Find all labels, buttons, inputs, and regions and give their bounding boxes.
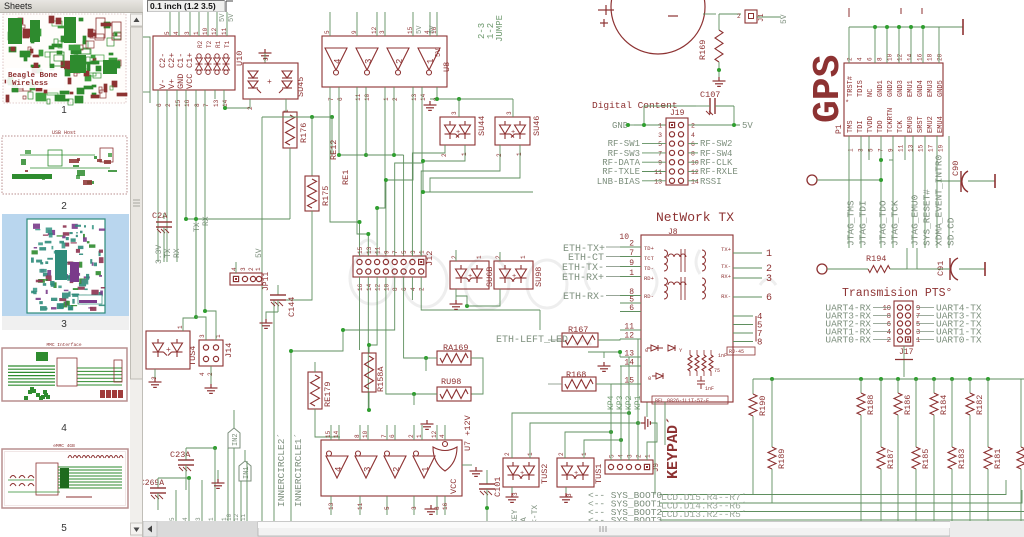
svg-text:1: 1 [476, 255, 483, 259]
wire [486, 489, 488, 521]
svg-text:1: 1 [461, 152, 468, 156]
svg-text:2: 2 [496, 153, 503, 157]
svg-text:Transmision PTS°: Transmision PTS° [842, 287, 952, 300]
svg-text:C101: C101 [493, 477, 503, 497]
svg-text:TCT: TCT [644, 255, 655, 262]
svg-text:T2: T2 [206, 40, 213, 48]
resistor R169 [715, 30, 723, 62]
svg-text:3: 3 [411, 506, 418, 510]
svg-text:16: 16 [917, 53, 924, 61]
capacitor C144 [277, 285, 279, 295]
svg-text:RE12: RE12 [329, 140, 339, 160]
svg-text:2: 2 [247, 106, 254, 110]
svg-text:14: 14 [420, 93, 427, 101]
svg-text:10: 10 [364, 93, 371, 101]
wire [358, 220, 362, 224]
svg-text:3: 3 [512, 492, 519, 496]
svg-text:7: 7 [629, 249, 634, 258]
svg-text:USB Host: USB Host [52, 130, 76, 136]
wire [366, 232, 370, 236]
svg-text:C1+: C1+ [185, 53, 195, 68]
svg-text:6: 6 [766, 293, 772, 304]
open pin [817, 264, 827, 274]
svg-text:C2A: C2A [152, 211, 168, 221]
svg-text:LCD.D13.R2--R5´: LCD.D13.R2--R5´ [661, 509, 747, 520]
svg-text:TDO: TDO [877, 120, 885, 133]
connector J12 [353, 256, 426, 277]
connector J17 [894, 301, 913, 346]
svg-text:J17: J17 [899, 348, 914, 357]
suppressor SU46 [495, 117, 530, 145]
wire [264, 53, 266, 63]
svg-text:C144: C144 [287, 297, 297, 317]
svg-text:9: 9 [383, 250, 390, 254]
svg-text:11: 11 [240, 513, 247, 521]
svg-text:J14: J14 [224, 343, 234, 358]
svg-text:ETH-RX+: ETH-RX+ [562, 273, 604, 284]
wire [291, 330, 343, 351]
wire [755, 316, 757, 342]
wire [311, 117, 313, 176]
svg-text:3: 3 [627, 454, 634, 458]
resistor RU98 [437, 387, 471, 401]
svg-text:10: 10 [362, 430, 369, 438]
svg-text:7: 7 [328, 97, 335, 101]
wire [425, 358, 427, 371]
termination resistors [688, 355, 692, 371]
connector J9 [605, 460, 653, 474]
wire [937, 180, 961, 182]
svg-text:*: * [845, 100, 849, 108]
wire [233, 410, 235, 428]
svg-text:KP2: KP2 [625, 395, 634, 410]
ground [421, 420, 434, 429]
resistor R158A [362, 353, 376, 392]
svg-text:7: 7 [381, 434, 388, 438]
svg-text:GND2: GND2 [887, 80, 895, 97]
svg-text:1: 1 [421, 467, 431, 472]
wire [359, 277, 361, 350]
flag IN1 [239, 461, 251, 481]
ground [713, 77, 726, 86]
svg-text:3: 3 [566, 493, 573, 497]
svg-text:6: 6 [337, 97, 344, 101]
svg-text:6: 6 [887, 321, 891, 329]
svg-text:2: 2 [392, 467, 402, 472]
wire [403, 155, 405, 256]
svg-text:P1: P1 [835, 124, 844, 134]
resistor R186 [897, 379, 899, 393]
svg-text:KP1: KP1 [634, 395, 643, 410]
svg-text:TCKRTN: TCKRTN [887, 108, 895, 133]
svg-text:5: 5 [658, 141, 662, 148]
svg-text:20: 20 [937, 53, 944, 61]
suppressor SU44 [440, 117, 475, 145]
svg-text:4: 4 [231, 267, 238, 271]
svg-text:3: 3 [199, 334, 206, 338]
svg-text:1: 1 [520, 255, 527, 259]
svg-text:EMU2: EMU2 [927, 116, 935, 133]
U7 top pins [330, 425, 332, 440]
wire [290, 351, 292, 521]
svg-text:2: 2 [408, 434, 415, 438]
svg-text:1: 1 [416, 434, 423, 438]
wire [411, 277, 413, 300]
connector J1 [745, 10, 757, 23]
J8 right pins [733, 252, 762, 254]
wire [455, 289, 457, 300]
svg-text:1: 1 [629, 269, 634, 278]
svg-text:11: 11 [221, 27, 228, 35]
wire [314, 362, 316, 372]
wire [205, 311, 216, 340]
wire [598, 339, 620, 340]
IC U8 [322, 36, 447, 87]
wire [642, 143, 666, 145]
svg-text:3: 3 [184, 31, 191, 35]
wire [628, 413, 630, 460]
capacitor C101 [486, 470, 488, 484]
svg-text:RU98: RU98 [441, 377, 461, 387]
svg-text:SU45: SU45 [296, 77, 306, 97]
wire [233, 448, 235, 521]
svg-text:7: 7 [392, 250, 399, 254]
svg-text:J12: J12 [425, 251, 435, 266]
wire bus [753, 378, 1024, 380]
wire [217, 470, 219, 479]
wire [916, 248, 918, 269]
wire [235, 262, 237, 273]
wire [638, 422, 641, 424]
svg-text:RF-SW1: RF-SW1 [608, 139, 640, 149]
svg-text:C91: C91 [936, 261, 946, 276]
horizontal scrollbar [143, 521, 1024, 537]
svg-text:TUS2: TUS2 [540, 464, 550, 484]
wire [377, 87, 385, 256]
svg-text:13: 13 [654, 178, 662, 185]
svg-text:NetWork TX: NetWork TX [656, 210, 734, 225]
svg-text:R184: R184 [939, 395, 949, 415]
svg-text:GND: GND [612, 121, 628, 131]
flag IN2 [228, 428, 240, 448]
svg-text:JUMPE: JUMPE [495, 15, 505, 42]
svg-text:EMU4: EMU4 [937, 116, 945, 133]
svg-text:0: 0 [645, 347, 648, 354]
svg-text:RA169: RA169 [443, 343, 469, 353]
svg-text:MMC Interface: MMC Interface [46, 342, 81, 348]
svg-text:1: 1 [527, 452, 534, 456]
svg-text:R176: R176 [299, 123, 309, 143]
svg-text:8: 8 [877, 57, 884, 61]
wire [548, 339, 562, 341]
svg-text:5: 5 [324, 30, 331, 34]
wire [368, 345, 370, 353]
svg-text:4: 4 [199, 372, 206, 376]
wire [158, 477, 189, 479]
svg-text:KP3: KP3 [616, 395, 625, 410]
wire [688, 124, 740, 126]
svg-text:JTAG_TDI: JTAG_TDI [858, 200, 869, 246]
wire [511, 487, 513, 493]
IC U7 [321, 440, 462, 496]
svg-text:TDIS: TDIS [857, 80, 865, 97]
wire [224, 107, 250, 109]
svg-text:R188: R188 [866, 395, 876, 415]
wire [644, 106, 696, 125]
svg-text:1: 1 [193, 31, 200, 35]
svg-text:8: 8 [757, 338, 762, 348]
svg-text:16: 16 [357, 283, 364, 291]
svg-text:eMMC 4GB: eMMC 4GB [53, 443, 75, 449]
svg-text:5V: 5V [255, 248, 264, 258]
wire [214, 90, 216, 99]
svg-text:0: 0 [648, 375, 651, 382]
svg-text:C23A: C23A [170, 450, 191, 460]
ground [149, 378, 162, 387]
resistor R180 [1020, 379, 1022, 447]
svg-text:5: 5 [384, 506, 391, 510]
resistor R188 [860, 379, 862, 393]
svg-text:J1: J1 [758, 14, 766, 22]
wire [512, 99, 514, 117]
wire [157, 90, 159, 262]
wire [703, 13, 716, 15]
svg-text:R185: R185 [921, 449, 931, 469]
wire [289, 148, 291, 219]
sheet thumbnail 1 [3, 14, 127, 105]
svg-text:KP4: KP4 [607, 395, 616, 410]
svg-text:1: 1 [419, 250, 426, 254]
svg-text:3.3V: 3.3V [155, 245, 164, 264]
svg-text:KEYPAD´: KEYPAD´ [665, 416, 682, 479]
watermark [350, 240, 776, 345]
svg-text:R1: R1 [215, 40, 222, 48]
panel scrollbar [130, 13, 143, 537]
svg-text:TVDD: TVDD [867, 116, 875, 133]
svg-text:5: 5 [916, 321, 920, 329]
svg-text:1: 1 [766, 249, 772, 260]
wire [286, 99, 290, 112]
svg-text:TMS: TMS [847, 120, 855, 133]
resistor R189 [771, 379, 773, 447]
svg-text:3: 3 [364, 59, 374, 64]
ground [903, 346, 905, 377]
svg-text:ETH-RX-: ETH-RX- [563, 292, 605, 303]
svg-text:5: 5 [401, 250, 408, 254]
svg-text:8: 8 [887, 313, 891, 321]
svg-text:6: 6 [401, 287, 408, 291]
wire stubs top [849, 8, 922, 17]
svg-text:EMU1: EMU1 [907, 80, 915, 97]
connector J14 [199, 340, 223, 366]
svg-text:T1: T1 [224, 40, 231, 48]
svg-text:UART0-RX: UART0-RX [825, 335, 871, 346]
sheet thumbnail 4 [2, 342, 127, 401]
svg-text:1nF: 1nF [718, 353, 727, 359]
wire [274, 211, 312, 300]
svg-text:SD.CD: SD.CD [946, 217, 957, 246]
svg-text:11: 11 [898, 144, 905, 152]
svg-text:10: 10 [883, 305, 891, 313]
svg-text:VCC: VCC [185, 74, 195, 89]
wire [331, 117, 333, 155]
svg-text:8: 8 [354, 434, 361, 438]
svg-text:10: 10 [619, 233, 629, 242]
wire 5V bus [849, 26, 963, 28]
svg-text:10: 10 [887, 53, 894, 61]
svg-text:R167: R167 [568, 325, 588, 335]
svg-text:+: + [574, 470, 578, 478]
svg-text:TRST#: TRST# [847, 76, 855, 97]
svg-text:15: 15 [357, 246, 364, 254]
svg-text:R182: R182 [975, 395, 985, 415]
svg-text:JTAG_TCK: JTAG_TCK [890, 200, 901, 246]
svg-text:SYS_RESET#: SYS_RESET# [922, 189, 933, 246]
diode D1 [647, 345, 663, 351]
svg-text:13: 13 [213, 99, 220, 107]
sheet label 3 [2, 316, 129, 330]
svg-text:11: 11 [654, 169, 662, 176]
wire [195, 225, 197, 317]
svg-text:3: 3 [240, 267, 247, 271]
resistor R182 [969, 379, 971, 393]
svg-text:+: + [166, 346, 171, 355]
svg-text:6: 6 [691, 141, 695, 148]
wire [426, 357, 437, 359]
svg-text:13: 13 [366, 246, 373, 254]
wire [565, 487, 567, 493]
svg-text:5: 5 [61, 523, 67, 534]
wire [423, 145, 465, 161]
svg-text:4: 4 [887, 329, 891, 337]
svg-text:7: 7 [658, 150, 662, 157]
terminal [994, 174, 996, 188]
wire [261, 117, 263, 521]
wire [154, 369, 156, 378]
ground [425, 505, 438, 514]
svg-text:9: 9 [629, 259, 634, 268]
svg-text:2: 2 [419, 287, 426, 291]
wire [610, 432, 612, 460]
wire [196, 317, 206, 340]
svg-text:+: + [520, 470, 524, 478]
svg-text:6: 6 [389, 434, 396, 438]
wire [654, 402, 656, 495]
wire [262, 116, 332, 118]
wire [733, 106, 735, 125]
svg-text:2: 2 [451, 255, 458, 259]
suppressor SU45 [243, 63, 298, 99]
wire [175, 490, 177, 521]
svg-text:RJ-45: RJ-45 [729, 349, 744, 355]
resistor RA169 [437, 351, 471, 365]
svg-text:15: 15 [918, 144, 925, 152]
suppressor TUS4 [146, 331, 190, 369]
svg-text:1: 1 [581, 452, 588, 456]
svg-text:LNB-BIAS: LNB-BIAS [597, 177, 640, 187]
svg-text:R194: R194 [866, 254, 886, 264]
diode D2 [652, 373, 663, 379]
ground [450, 300, 463, 309]
wire [625, 124, 634, 126]
panel background [0, 0, 143, 537]
svg-text:R158A: R158A [376, 366, 386, 392]
panel pin icon [120, 4, 124, 11]
svg-text:J19: J19 [670, 109, 685, 118]
svg-text:GND4: GND4 [917, 80, 925, 97]
svg-text:2: 2 [737, 13, 741, 20]
svg-text:RX+: RX+ [721, 273, 731, 280]
svg-text:SU46: SU46 [532, 116, 542, 136]
svg-text:+: + [468, 273, 472, 281]
svg-text:12: 12 [375, 283, 382, 291]
svg-text:TX+: TX+ [721, 246, 731, 253]
svg-text:JTAG_EMU0: JTAG_EMU0 [910, 194, 921, 246]
svg-text:6: 6 [867, 57, 874, 61]
svg-text:GND1: GND1 [877, 80, 885, 97]
U8 top pins [329, 12, 331, 36]
svg-text:1: 1 [426, 59, 436, 64]
svg-text:JTAG_TMS: JTAG_TMS [846, 200, 857, 246]
svg-text:U8: U8 [442, 62, 452, 72]
svg-text:11: 11 [375, 246, 382, 254]
panel close icon [132, 4, 138, 10]
svg-text:TDI: TDI [857, 120, 865, 133]
svg-text:3: 3 [263, 57, 270, 61]
svg-text:1: 1 [645, 454, 652, 458]
wire [185, 90, 187, 219]
svg-text:+: + [456, 129, 460, 137]
transformer T1 [664, 250, 668, 271]
svg-text:TUS4: TUS4 [188, 346, 198, 366]
svg-text:RE179: RE179 [323, 381, 333, 407]
connector J19 [666, 118, 688, 185]
wire [603, 352, 605, 358]
svg-text:2: 2 [504, 452, 511, 456]
svg-text:12: 12 [211, 27, 218, 35]
wire [423, 161, 533, 192]
svg-text:2: 2 [392, 97, 399, 101]
svg-text:TX: TX [193, 222, 202, 232]
resistor R183 [951, 379, 953, 447]
wire [471, 358, 483, 394]
svg-text:14: 14 [691, 178, 699, 185]
svg-text:R190: R190 [758, 396, 768, 416]
wire [467, 289, 500, 306]
svg-text:VCC: VCC [449, 479, 459, 494]
ground [212, 479, 225, 488]
suppressor TUS1 [557, 458, 594, 487]
svg-text:14: 14 [366, 283, 373, 291]
svg-text:2: 2 [636, 454, 643, 458]
svg-text:R2: R2 [197, 40, 204, 48]
svg-text:Digital Content: Digital Content [592, 100, 678, 111]
svg-text:SRST: SRST [917, 116, 925, 133]
ground [260, 319, 273, 328]
terminal [984, 262, 986, 276]
svg-text:TX: TX [164, 248, 173, 258]
terminal [962, 19, 964, 35]
label RJ-45 [727, 347, 755, 355]
svg-text:13: 13 [328, 502, 335, 510]
svg-text:11: 11 [355, 93, 362, 101]
svg-text:10: 10 [202, 27, 209, 35]
wire [596, 383, 611, 385]
svg-text:5V: 5V [780, 14, 789, 24]
svg-text:14: 14 [333, 430, 340, 438]
svg-text:2: 2 [248, 267, 255, 271]
wire [606, 246, 620, 248]
